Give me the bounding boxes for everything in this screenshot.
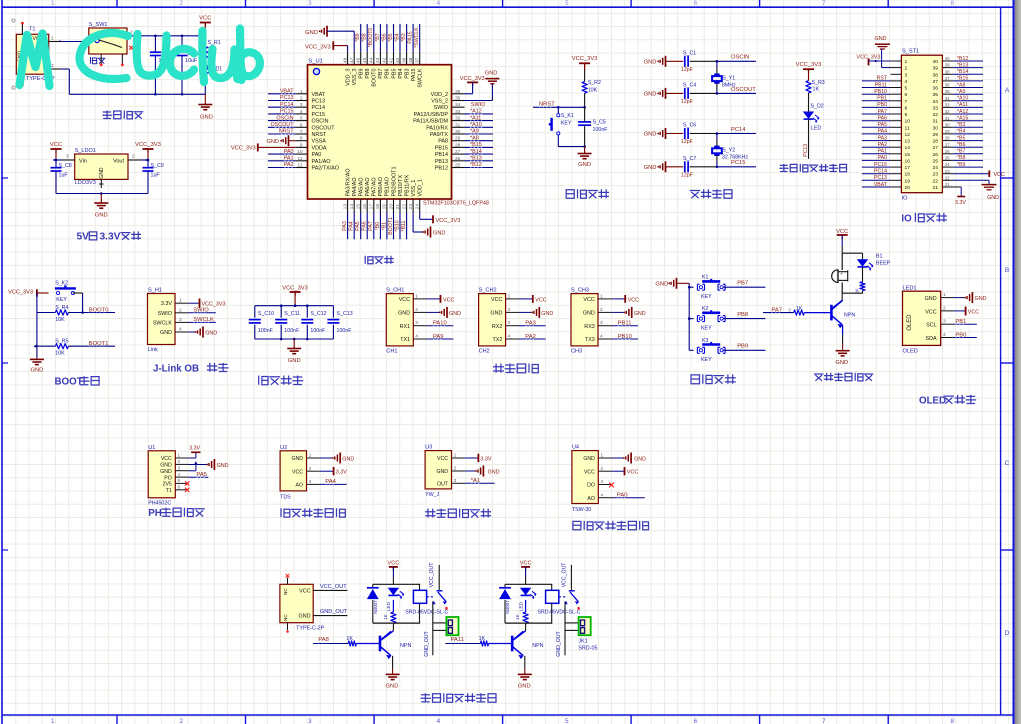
svg-text:8: 8 bbox=[300, 136, 303, 142]
svg-text:3: 3 bbox=[309, 479, 312, 484]
LED S_LED1 bbox=[200, 58, 223, 94]
wire and net label PA10 bbox=[427, 321, 454, 327]
svg-text:VCC_3V3: VCC_3V3 bbox=[202, 302, 226, 308]
svg-text:1: 1 bbox=[943, 292, 946, 298]
svg-text:1: 1 bbox=[601, 453, 604, 458]
svg-text:GND: GND bbox=[925, 296, 937, 302]
svg-text:30: 30 bbox=[455, 129, 461, 135]
connector S_CH2 body bbox=[479, 288, 506, 355]
svg-text:PB10: PB10 bbox=[618, 334, 632, 340]
regulator S_LDO1 LDO3V3 bbox=[62, 148, 140, 188]
svg-text:VCC: VCC bbox=[491, 297, 502, 303]
svg-text:CH2: CH2 bbox=[479, 349, 490, 355]
svg-text:SRD-05VDC-SL-C: SRD-05VDC-SL-C bbox=[538, 610, 581, 616]
svg-text:2: 2 bbox=[601, 466, 604, 471]
svg-text:5: 5 bbox=[565, 0, 569, 7]
svg-text:2: 2 bbox=[508, 307, 511, 313]
pins J-Link bbox=[175, 298, 188, 333]
wires and net labels bottom of MCU bbox=[342, 213, 407, 240]
svg-text:VCC: VCC bbox=[628, 297, 639, 303]
svg-text:C: C bbox=[1005, 460, 1010, 467]
svg-text:GND: GND bbox=[634, 311, 646, 317]
svg-text:S_H1: S_H1 bbox=[148, 287, 162, 293]
ground GND (relay driver) stage1 bbox=[386, 669, 400, 690]
svg-text:SWCLK: SWCLK bbox=[418, 68, 424, 88]
svg-text:PA5: PA5 bbox=[355, 221, 361, 231]
wires and net labels IO header left bbox=[862, 76, 891, 188]
svg-text:LED: LED bbox=[386, 601, 391, 611]
svg-text:5: 5 bbox=[905, 86, 908, 92]
svg-text:2: 2 bbox=[178, 459, 181, 464]
svg-text:B: B bbox=[1005, 267, 1009, 274]
resistor S_R1 1K bbox=[203, 36, 221, 58]
svg-text:*B0: *B0 bbox=[375, 222, 381, 230]
title BOOT circuit bbox=[55, 376, 100, 388]
svg-text:LED: LED bbox=[811, 125, 821, 131]
svg-text:S_K2: S_K2 bbox=[55, 281, 68, 287]
pin names top inside MCU bbox=[345, 68, 423, 88]
svg-text:VCC_3V3: VCC_3V3 bbox=[796, 62, 822, 68]
relay coil SRD-05VDC-SL-C stage2 bbox=[538, 584, 581, 623]
power flag VCC (relay) stage2 bbox=[520, 560, 532, 584]
svg-text:GND: GND bbox=[217, 463, 229, 469]
title crystal circuit bbox=[690, 189, 732, 198]
title serial circuit bbox=[493, 364, 538, 373]
display LED1 OLED body bbox=[903, 286, 941, 355]
module U2 TDS body bbox=[280, 445, 306, 500]
svg-text:10uF: 10uF bbox=[185, 58, 198, 64]
svg-text:*B6: *B6 bbox=[957, 142, 965, 148]
svg-text:34: 34 bbox=[945, 96, 950, 101]
title TDS module bbox=[281, 508, 345, 517]
svg-text:PA3: PA3 bbox=[525, 321, 536, 327]
module U3 YW_J body bbox=[425, 445, 451, 499]
title main chip bbox=[365, 256, 394, 264]
svg-text:LED: LED bbox=[518, 601, 523, 611]
svg-text:BOOT0: BOOT0 bbox=[89, 308, 109, 314]
svg-text:3: 3 bbox=[943, 319, 946, 325]
svg-text:B1: B1 bbox=[876, 253, 883, 259]
wire and net label OSCIN bbox=[716, 55, 756, 63]
svg-text:GND: GND bbox=[386, 684, 399, 690]
svg-text:CH1: CH1 bbox=[386, 349, 397, 355]
svg-text:*B3: *B3 bbox=[401, 33, 407, 41]
svg-text:PB1: PB1 bbox=[877, 96, 887, 102]
wire relay emitter stage1 bbox=[392, 656, 394, 669]
svg-text:PA10: PA10 bbox=[433, 321, 447, 327]
wire and label VCC_OUT bbox=[313, 584, 347, 591]
ground GND (BOOT) bbox=[30, 358, 44, 374]
svg-text:31: 31 bbox=[945, 116, 950, 121]
svg-text:PB4: PB4 bbox=[398, 69, 404, 79]
svg-text:3.3V: 3.3V bbox=[480, 457, 491, 463]
wire and net label SWIO bbox=[188, 308, 215, 314]
connector S_ST1 IO header body bbox=[901, 48, 942, 201]
wire BOOT left rail bbox=[33, 293, 37, 358]
svg-text:VCC_3V3: VCC_3V3 bbox=[436, 218, 461, 224]
svg-text:2: 2 bbox=[51, 63, 54, 69]
power flag VCC_3V3 (IO pin1) bbox=[857, 54, 891, 65]
svg-text:3: 3 bbox=[179, 317, 182, 323]
svg-text:PA4: PA4 bbox=[325, 479, 336, 485]
svg-text:PC13: PC13 bbox=[280, 95, 294, 101]
capacitor S_C13 100nF bbox=[327, 306, 352, 339]
svg-text:PA0: PA0 bbox=[617, 493, 628, 499]
svg-text:1: 1 bbox=[300, 89, 303, 95]
svg-text:*B3: *B3 bbox=[957, 122, 965, 128]
svg-text:*B11: *B11 bbox=[401, 220, 407, 231]
svg-text:22: 22 bbox=[945, 175, 950, 180]
pins S_CH1 bbox=[413, 293, 426, 339]
svg-text:9: 9 bbox=[905, 112, 908, 118]
connector S_H1 J-Link bbox=[148, 287, 176, 353]
terminal block JK (relay) stage2 bbox=[579, 617, 591, 635]
power flag VCC (CH1) bbox=[427, 295, 455, 303]
svg-text:PA11: PA11 bbox=[451, 637, 464, 643]
wire GND_OUT (relay output) stage1 bbox=[424, 601, 447, 656]
svg-text:*BOOT0: *BOOT0 bbox=[368, 28, 374, 48]
svg-text:PA2: PA2 bbox=[284, 162, 294, 168]
wire T1 to SW1 bbox=[60, 40, 89, 41]
svg-text:*B8: *B8 bbox=[957, 155, 965, 161]
ground GND (CH2) bbox=[519, 307, 553, 318]
no-connect top pin T1 bbox=[21, 22, 24, 25]
svg-text:21: 21 bbox=[933, 185, 939, 191]
ground GND (VSS_1) bbox=[413, 213, 445, 238]
svg-text:17: 17 bbox=[905, 165, 911, 171]
svg-text:CH3: CH3 bbox=[571, 349, 582, 355]
svg-text:GND: GND bbox=[578, 162, 591, 168]
svg-text:VCC: VCC bbox=[299, 588, 310, 594]
svg-text:*A8: *A8 bbox=[470, 135, 479, 141]
svg-text:14: 14 bbox=[349, 204, 355, 210]
svg-text:*B4: *B4 bbox=[957, 129, 965, 135]
svg-text:DO: DO bbox=[587, 483, 595, 489]
svg-text:*B9: *B9 bbox=[957, 162, 965, 168]
wire and net label PA3 bbox=[519, 321, 546, 327]
svg-text:34: 34 bbox=[455, 102, 461, 108]
svg-text:18: 18 bbox=[375, 204, 381, 210]
svg-text:38: 38 bbox=[408, 57, 414, 63]
svg-text:4: 4 bbox=[437, 718, 441, 724]
title IO expansion port bbox=[901, 213, 947, 225]
power flag 3.3V (IO pin21) bbox=[942, 187, 966, 206]
svg-text:16: 16 bbox=[362, 204, 368, 210]
svg-text:S_CH3: S_CH3 bbox=[571, 288, 589, 294]
power flag VCC (IO pin23) bbox=[953, 170, 1005, 178]
svg-text:37: 37 bbox=[945, 76, 950, 81]
svg-text:VCC_3V3: VCC_3V3 bbox=[282, 285, 308, 291]
svg-text:T1: T1 bbox=[166, 488, 172, 494]
wires and net labels left of MCU bbox=[268, 89, 295, 169]
svg-text:U4: U4 bbox=[572, 445, 579, 451]
svg-text:23: 23 bbox=[945, 169, 950, 174]
svg-text:*A11: *A11 bbox=[470, 115, 481, 121]
svg-text:VSS_1: VSS_1 bbox=[411, 180, 417, 197]
no-connect U1 pin6 bbox=[185, 488, 189, 492]
svg-text:11: 11 bbox=[298, 156, 303, 162]
svg-text:29: 29 bbox=[945, 129, 950, 134]
wire filter bottom rail bbox=[255, 338, 334, 341]
power flag VCC (OLED) bbox=[954, 307, 979, 316]
power flag VCC_3V3 (VDD_1) bbox=[420, 213, 461, 224]
power flag VCC_3V3 (VDDA) bbox=[231, 143, 295, 151]
LED relay indicator stage2 bbox=[518, 588, 536, 611]
svg-text:1K: 1K bbox=[479, 636, 486, 642]
svg-text:10: 10 bbox=[905, 119, 911, 125]
svg-text:OSCIN: OSCIN bbox=[276, 115, 293, 121]
switch S_SW1 bbox=[89, 22, 127, 64]
svg-text:GND: GND bbox=[342, 456, 354, 462]
pushbutton K2 KEY bbox=[689, 306, 725, 331]
svg-text:S_Y1: S_Y1 bbox=[722, 75, 735, 81]
svg-text:GND: GND bbox=[436, 469, 448, 475]
svg-text:PA7: PA7 bbox=[878, 109, 888, 115]
svg-text:S_SW1: S_SW1 bbox=[89, 22, 108, 28]
svg-text:3.3V: 3.3V bbox=[189, 446, 200, 452]
svg-text:PB9: PB9 bbox=[737, 344, 748, 350]
svg-text:27: 27 bbox=[933, 145, 939, 151]
svg-text:100nF: 100nF bbox=[593, 127, 609, 133]
svg-text:6: 6 bbox=[178, 484, 181, 489]
relay switch contact stage2 bbox=[559, 562, 580, 610]
svg-text:PB6: PB6 bbox=[385, 69, 391, 79]
svg-text:PB10: PB10 bbox=[874, 89, 887, 95]
svg-text:14: 14 bbox=[905, 145, 911, 151]
svg-text:PA4: PA4 bbox=[878, 129, 888, 135]
wire and net label PB9 bbox=[723, 344, 765, 351]
no-connect U4 DO bbox=[609, 483, 614, 488]
relay coil SRD-05VDC-SL-C stage1 bbox=[405, 584, 448, 623]
svg-text:2: 2 bbox=[415, 307, 418, 313]
svg-text:S_C7: S_C7 bbox=[683, 156, 696, 162]
svg-text:*A10: *A10 bbox=[470, 122, 482, 128]
svg-text:PA1: PA1 bbox=[878, 149, 888, 155]
svg-text:PC15: PC15 bbox=[280, 109, 294, 115]
wire and net label PA0 (U4) bbox=[612, 493, 645, 499]
power flag VCC (power circuit) bbox=[199, 16, 211, 36]
svg-text:S_CH2: S_CH2 bbox=[479, 288, 497, 294]
svg-text:4: 4 bbox=[178, 472, 181, 477]
svg-text:*A9: *A9 bbox=[470, 129, 479, 135]
svg-text:PB1: PB1 bbox=[955, 319, 966, 325]
pins top of MCU bbox=[342, 52, 420, 65]
svg-text:7: 7 bbox=[300, 129, 303, 135]
svg-text:OSCIN: OSCIN bbox=[312, 119, 329, 125]
capacitor S_C4 12pF bbox=[666, 82, 717, 105]
ground GND (U4) bbox=[612, 453, 647, 464]
title J-Link OB bbox=[153, 363, 229, 375]
connector S_CH1 body bbox=[386, 288, 413, 355]
svg-text:1: 1 bbox=[508, 293, 511, 299]
svg-text:SWIO: SWIO bbox=[193, 308, 209, 314]
power flag VCC_3V3 (BOOT) bbox=[8, 289, 48, 296]
svg-text:24: 24 bbox=[933, 165, 939, 171]
svg-text:PH4502C: PH4502C bbox=[148, 501, 171, 507]
svg-text:VDD_1: VDD_1 bbox=[418, 179, 424, 196]
svg-text:N4007: N4007 bbox=[373, 600, 378, 614]
svg-text:1: 1 bbox=[179, 298, 182, 304]
svg-text:OSCOUT: OSCOUT bbox=[312, 125, 336, 131]
svg-text:11: 11 bbox=[905, 125, 910, 131]
svg-text:NC: NC bbox=[283, 588, 288, 595]
svg-text:STM32F103C8T6_LQFP48: STM32F103C8T6_LQFP48 bbox=[423, 200, 489, 206]
ground GND (crystal row OSCIN) bbox=[644, 56, 666, 67]
title program run LED bbox=[779, 164, 846, 172]
ground GND (MCU top) bbox=[305, 26, 354, 52]
wire and net label PC14 bbox=[716, 127, 756, 135]
svg-text:GND: GND bbox=[488, 469, 500, 475]
power flag VCC (CH3) bbox=[611, 295, 639, 303]
svg-text:3: 3 bbox=[308, 0, 312, 7]
power flag VCC (relay) stage1 bbox=[387, 560, 399, 584]
svg-text:VCC: VCC bbox=[994, 172, 1005, 178]
power flag 3.3V (U2) bbox=[320, 467, 347, 476]
svg-text:42: 42 bbox=[382, 57, 388, 63]
svg-text:GND: GND bbox=[449, 311, 461, 317]
svg-text:PA7/AO: PA7/AO bbox=[372, 177, 378, 196]
svg-text:4: 4 bbox=[508, 334, 511, 340]
svg-text:GND: GND bbox=[267, 139, 279, 145]
svg-text:12pF: 12pF bbox=[681, 67, 694, 73]
svg-text:PA9: PA9 bbox=[433, 334, 444, 340]
svg-text:VCC_OUT: VCC_OUT bbox=[429, 562, 435, 588]
svg-text:PA9/TX: PA9/TX bbox=[430, 132, 449, 138]
svg-text:LDO3V3: LDO3V3 bbox=[75, 180, 96, 186]
capacitor S_C9 1uF bbox=[143, 160, 164, 194]
svg-text:6: 6 bbox=[905, 92, 908, 98]
svg-text:GND: GND bbox=[288, 358, 301, 364]
svg-text:40: 40 bbox=[945, 56, 950, 61]
wire and net label PB8 bbox=[723, 312, 765, 319]
svg-text:Vin: Vin bbox=[79, 159, 87, 165]
ground GND (CH1) bbox=[427, 307, 461, 318]
LED relay indicator stage1 bbox=[386, 588, 404, 611]
svg-text:PC14: PC14 bbox=[280, 102, 294, 108]
title reset circuit bbox=[566, 189, 609, 198]
svg-text:VCC: VCC bbox=[836, 229, 848, 235]
svg-text:29: 29 bbox=[455, 136, 461, 142]
svg-text:PA6: PA6 bbox=[878, 116, 888, 122]
wire power bottom rail bbox=[60, 69, 205, 96]
svg-text:PA3/RX/AO: PA3/RX/AO bbox=[345, 168, 351, 196]
svg-text:VCC_OUT: VCC_OUT bbox=[320, 584, 347, 590]
svg-text:T1: T1 bbox=[29, 27, 35, 33]
svg-text:NRST: NRST bbox=[539, 101, 555, 107]
svg-text:PC14: PC14 bbox=[874, 169, 887, 175]
svg-text:13: 13 bbox=[905, 139, 911, 145]
svg-text:2: 2 bbox=[179, 307, 182, 313]
svg-text:PA3: PA3 bbox=[878, 135, 888, 141]
svg-text:*B12: *B12 bbox=[957, 56, 968, 62]
capacitor S_C1 12pF bbox=[666, 50, 717, 73]
svg-text:BOOT1: BOOT1 bbox=[388, 217, 394, 235]
svg-text:3: 3 bbox=[601, 479, 604, 484]
svg-text:*A1: *A1 bbox=[471, 478, 480, 484]
wire alarm bottom node bbox=[842, 293, 863, 300]
svg-text:3: 3 bbox=[454, 478, 457, 483]
svg-text:GND: GND bbox=[655, 282, 668, 288]
svg-text:*A10: *A10 bbox=[957, 96, 968, 102]
svg-text:33: 33 bbox=[945, 103, 950, 108]
wire and net label PA1 (U3) bbox=[465, 478, 495, 484]
svg-text:29: 29 bbox=[933, 132, 939, 138]
svg-text:U3: U3 bbox=[425, 445, 432, 451]
svg-text:GND_OUT: GND_OUT bbox=[424, 631, 430, 657]
wire GND_OUT (relay output) stage2 bbox=[556, 601, 579, 656]
svg-text:21: 21 bbox=[395, 204, 401, 210]
svg-text:PC14: PC14 bbox=[731, 127, 746, 133]
svg-text:1K: 1K bbox=[796, 306, 803, 312]
svg-text:PO: PO bbox=[164, 475, 172, 481]
svg-text:S_LDO1: S_LDO1 bbox=[75, 148, 96, 154]
svg-text:35: 35 bbox=[933, 92, 939, 98]
svg-text:GND: GND bbox=[518, 684, 531, 690]
LED alarm with resistor bbox=[855, 253, 874, 294]
ground GND (J-Link) bbox=[188, 327, 217, 338]
power flag VCC (U4) bbox=[612, 467, 639, 476]
svg-text:BOOT: BOOT bbox=[55, 377, 83, 388]
svg-text:PA2: PA2 bbox=[878, 142, 888, 148]
svg-text:PH: PH bbox=[148, 508, 162, 519]
transistor NPN (relay driver) stage2 bbox=[512, 623, 543, 659]
svg-text:4: 4 bbox=[437, 0, 441, 7]
svg-text:VCC_3V3: VCC_3V3 bbox=[305, 44, 331, 50]
svg-text:2: 2 bbox=[600, 307, 603, 313]
svg-text:*B13: *B13 bbox=[957, 62, 968, 68]
svg-text:PC15: PC15 bbox=[312, 112, 326, 118]
resistor S_R2 10K bbox=[582, 80, 601, 107]
svg-text:6: 6 bbox=[300, 122, 303, 128]
svg-text:PB13: PB13 bbox=[435, 159, 448, 165]
svg-text:2: 2 bbox=[309, 466, 312, 471]
svg-text:12: 12 bbox=[297, 163, 303, 169]
svg-text:3: 3 bbox=[178, 465, 181, 470]
ground GND (U2) bbox=[320, 453, 355, 464]
svg-text:27: 27 bbox=[945, 142, 950, 147]
pins U2 bbox=[307, 453, 320, 485]
svg-text:TX2: TX2 bbox=[493, 337, 503, 343]
svg-text:37: 37 bbox=[415, 57, 421, 63]
svg-text:15: 15 bbox=[905, 152, 911, 158]
svg-text:8: 8 bbox=[905, 105, 908, 111]
svg-text:KEY: KEY bbox=[701, 325, 712, 331]
svg-text:GND_OUT: GND_OUT bbox=[320, 609, 348, 615]
svg-text:U1: U1 bbox=[148, 445, 155, 451]
svg-text:PB15: PB15 bbox=[435, 145, 448, 151]
svg-text:NRST: NRST bbox=[312, 132, 327, 138]
pins left of MCU bbox=[295, 89, 339, 172]
pins S_CH2 bbox=[506, 293, 519, 339]
svg-text:36: 36 bbox=[933, 86, 939, 92]
svg-text:JK1: JK1 bbox=[578, 639, 587, 645]
svg-text:PA8: PA8 bbox=[438, 139, 448, 145]
svg-text:GND: GND bbox=[160, 330, 172, 336]
wire alarm emitter bbox=[842, 325, 844, 344]
svg-text:4: 4 bbox=[179, 327, 182, 333]
capacitor S_C6 12pF bbox=[666, 123, 717, 146]
svg-text:GND: GND bbox=[205, 330, 217, 336]
svg-text:*B14: *B14 bbox=[957, 69, 968, 75]
power flag VCC_3V3 (filter) bbox=[282, 285, 308, 305]
wire and net label OSCOUT bbox=[716, 87, 757, 95]
resistor S_R3 1K bbox=[806, 80, 825, 112]
pushbutton K3 KEY bbox=[689, 338, 725, 363]
svg-text:RX3: RX3 bbox=[584, 324, 595, 330]
wire relay top rail stage1 bbox=[373, 583, 420, 585]
svg-text:VSSA: VSSA bbox=[312, 139, 327, 145]
ground GND (OLED) bbox=[954, 292, 987, 303]
